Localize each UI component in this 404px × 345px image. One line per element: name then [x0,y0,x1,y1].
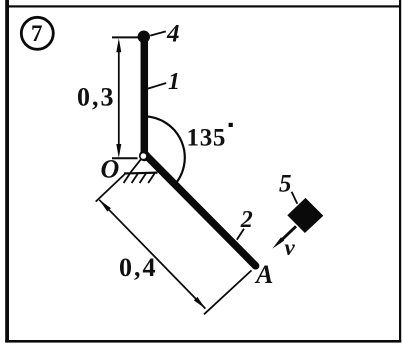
ground hatch 1 [124,173,130,183]
pivot support triangle left leg [130,159,141,173]
dimension 0,4 extension line at A [204,270,252,314]
pivot backing at O [139,150,150,161]
leader line to label 1 [148,83,166,89]
bullet 5 square [287,198,323,233]
svg-text:1: 1 [168,69,180,95]
degree mark [229,123,233,127]
ball 4 at top of rod [138,31,150,43]
frame border left [5,0,9,343]
svg-text:0,4: 0,4 [119,253,158,282]
dimension 0,3 arrow down [116,144,121,158]
svg-text:A: A [254,260,273,289]
dimension 0,3 extension line top [112,36,139,38]
rod 1 and rod 2 (bent rod O-A) [144,41,255,266]
dimension 0,4 arrow upper-left [99,200,111,212]
frame border top [9,5,401,7]
dimension 0,3 arrow up [116,38,121,52]
dimension 0,4 arrow lower-right [194,297,206,309]
ground hatch 2 [132,173,138,183]
frame border bottom [5,340,401,343]
velocity arrow shaft [279,226,296,242]
leader line to label 5 [292,192,298,204]
svg-text:v: v [285,235,296,260]
frame border right [399,0,401,342]
leader line to label 2 [237,229,244,240]
svg-text:5: 5 [279,170,292,197]
ground hatch 3 [140,173,146,183]
svg-text:135: 135 [187,125,227,152]
svg-text:2: 2 [240,207,253,233]
ground hatch 4 [148,173,154,183]
dimension 0,4 line [99,200,205,309]
problem number badge circle [21,17,53,49]
angle arc 135 [144,116,185,187]
dimension 0,3 extension line bottom [112,157,138,159]
svg-text:7: 7 [31,21,43,46]
leader line to label 4 [150,31,166,35]
svg-text:0,3: 0,3 [77,82,116,111]
svg-text:O: O [101,155,120,184]
pivot pin hole [141,153,147,159]
ground line [124,172,158,175]
velocity arrow head [272,237,284,248]
dimension 0,4 extension line at O [96,174,125,201]
svg-text:4: 4 [166,21,180,48]
dimension 0,3 line [118,44,120,152]
